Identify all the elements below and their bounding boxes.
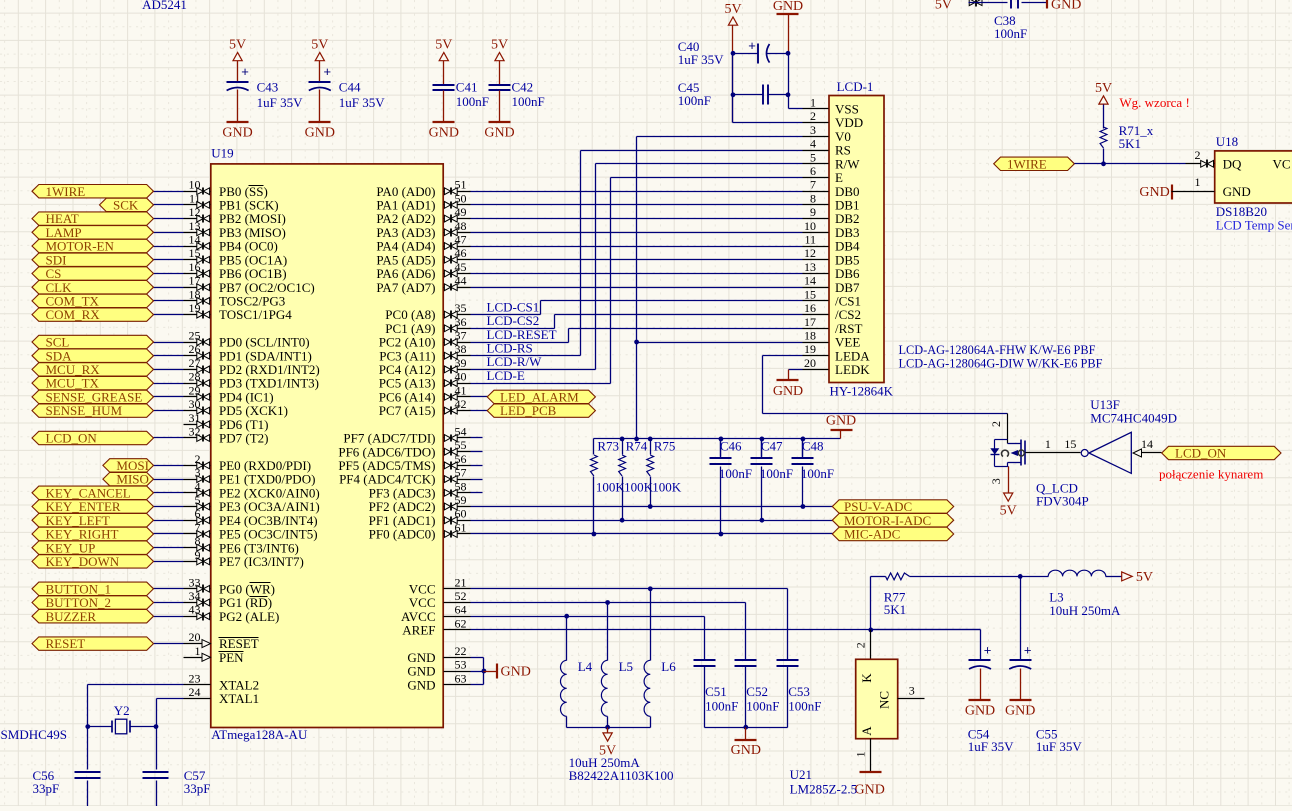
svg-text:100nF: 100nF: [512, 94, 545, 109]
svg-text:1uF 35V: 1uF 35V: [1036, 739, 1082, 754]
svg-text:5K1: 5K1: [884, 602, 906, 617]
svg-text:24: 24: [189, 685, 201, 699]
svg-text:48: 48: [455, 219, 467, 233]
svg-text:3: 3: [195, 466, 201, 480]
svg-text:3: 3: [909, 684, 915, 698]
svg-text:+: +: [241, 64, 249, 79]
svg-text:60: 60: [455, 507, 467, 521]
svg-text:5V: 5V: [1136, 570, 1153, 585]
svg-text:47: 47: [455, 233, 467, 247]
svg-text:2: 2: [989, 421, 1003, 427]
svg-text:DB4: DB4: [835, 239, 860, 254]
svg-text:40: 40: [455, 370, 467, 384]
svg-text:GND: GND: [773, 0, 803, 14]
svg-text:56: 56: [455, 452, 467, 466]
svg-text:C53: C53: [788, 684, 810, 699]
svg-text:5V: 5V: [1000, 504, 1017, 519]
svg-text:39: 39: [455, 356, 467, 370]
svg-text:2: 2: [195, 452, 201, 466]
svg-text:100nF: 100nF: [678, 93, 711, 108]
svg-text:46: 46: [455, 246, 467, 260]
svg-text:12: 12: [804, 246, 816, 260]
svg-text:8: 8: [195, 534, 201, 548]
svg-text:GND: GND: [826, 413, 856, 428]
svg-text:100nF: 100nF: [456, 94, 489, 109]
svg-text:17: 17: [804, 315, 816, 329]
svg-text:44: 44: [455, 274, 467, 288]
svg-text:100nF: 100nF: [994, 26, 1027, 41]
svg-text:1: 1: [854, 751, 868, 757]
svg-text:29: 29: [189, 383, 201, 397]
svg-text:C46: C46: [720, 439, 742, 454]
svg-text:10: 10: [189, 178, 201, 192]
svg-text:5V: 5V: [229, 38, 246, 53]
svg-text:PC5 (A13): PC5 (A13): [379, 376, 436, 391]
svg-text:13: 13: [804, 260, 816, 274]
svg-text:61: 61: [455, 521, 467, 535]
svg-text:GND: GND: [222, 126, 252, 141]
svg-text:15: 15: [189, 246, 201, 260]
svg-text:18: 18: [189, 287, 201, 301]
svg-text:C48: C48: [802, 439, 824, 454]
svg-text:41: 41: [455, 383, 467, 397]
svg-text:10: 10: [804, 219, 816, 233]
svg-text:35: 35: [455, 301, 467, 315]
svg-text:PC7 (A15): PC7 (A15): [379, 403, 436, 418]
svg-text:54: 54: [455, 425, 467, 439]
svg-text:5: 5: [810, 150, 816, 164]
svg-text:1WIRE: 1WIRE: [1007, 156, 1047, 171]
svg-text:100nF: 100nF: [801, 466, 834, 481]
svg-text:GND: GND: [407, 677, 435, 692]
svg-text:HY-12864K: HY-12864K: [830, 384, 894, 399]
svg-text:MOTOR-EN: MOTOR-EN: [46, 239, 115, 254]
svg-text:62: 62: [455, 616, 467, 630]
svg-text:100K: 100K: [652, 480, 682, 495]
svg-text:C43: C43: [257, 80, 279, 95]
svg-text:LM285Z-2.5: LM285Z-2.5: [790, 781, 858, 796]
svg-text:L5: L5: [619, 659, 633, 674]
svg-text:VDD: VDD: [835, 115, 863, 130]
svg-text:PB4 (OC0): PB4 (OC0): [219, 239, 278, 254]
svg-text:DQ: DQ: [1223, 156, 1242, 171]
svg-text:59: 59: [455, 493, 467, 507]
svg-text:52: 52: [455, 589, 467, 603]
svg-text:C51: C51: [705, 684, 727, 699]
svg-text:10uH 250mA: 10uH 250mA: [1049, 603, 1121, 618]
svg-text:36: 36: [455, 315, 467, 329]
svg-text:MIC-ADC: MIC-ADC: [844, 527, 900, 542]
svg-text:LED_PCB: LED_PCB: [500, 403, 557, 418]
svg-text:PA4 (AD4): PA4 (AD4): [376, 239, 435, 254]
svg-text:BUZZER: BUZZER: [46, 609, 97, 624]
svg-text:100nF: 100nF: [788, 699, 821, 714]
svg-text:1: 1: [195, 644, 201, 658]
svg-text:C42: C42: [512, 80, 534, 95]
svg-text:58: 58: [455, 479, 467, 493]
svg-text:32: 32: [189, 425, 201, 439]
svg-text:PE7 (IC3/INT7): PE7 (IC3/INT7): [219, 554, 304, 569]
svg-text:GND: GND: [731, 743, 761, 758]
svg-text:9: 9: [810, 205, 816, 219]
svg-text:PD7 (T2): PD7 (T2): [219, 431, 268, 446]
svg-text:PA7 (AD7): PA7 (AD7): [376, 280, 435, 295]
svg-text:U21: U21: [790, 767, 812, 782]
svg-text:LCD_ON: LCD_ON: [46, 431, 98, 446]
svg-text:KEY_DOWN: KEY_DOWN: [46, 554, 120, 569]
svg-text:64: 64: [455, 603, 467, 617]
svg-text:GND: GND: [429, 126, 459, 141]
svg-text:SENSE_HUM: SENSE_HUM: [46, 403, 123, 418]
svg-text:MC74HC4049D: MC74HC4049D: [1090, 411, 1177, 426]
svg-text:15: 15: [1064, 437, 1076, 451]
svg-text:5K1: 5K1: [1119, 136, 1141, 151]
svg-text:2: 2: [810, 109, 816, 123]
svg-text:33: 33: [189, 575, 201, 589]
svg-text:LCD_ON: LCD_ON: [1175, 446, 1227, 461]
svg-text:+: +: [1024, 643, 1032, 658]
svg-text:B82422A1103K100: B82422A1103K100: [569, 768, 674, 783]
svg-text:17: 17: [189, 274, 201, 288]
svg-text:2: 2: [854, 642, 868, 648]
svg-text:3: 3: [989, 478, 1003, 484]
svg-text:GND: GND: [305, 126, 335, 141]
svg-text:MCU_TX: MCU_TX: [46, 376, 100, 391]
svg-text:LCD Temp Sen: LCD Temp Sen: [1216, 218, 1292, 233]
svg-text:GND: GND: [773, 384, 803, 399]
svg-text:23: 23: [189, 671, 201, 685]
svg-text:45: 45: [455, 260, 467, 274]
svg-text:5V: 5V: [311, 38, 328, 53]
svg-text:4: 4: [810, 137, 816, 151]
svg-text:+: +: [984, 643, 992, 658]
svg-text:20: 20: [189, 630, 201, 644]
svg-text:A: A: [859, 726, 874, 736]
svg-text:COM_RX: COM_RX: [46, 307, 101, 322]
svg-text:LCD-E: LCD-E: [487, 368, 525, 383]
svg-text:XTAL1: XTAL1: [219, 691, 259, 706]
svg-text:PF0 (ADC0): PF0 (ADC0): [369, 527, 436, 542]
svg-text:LCD-AG-128064G-DIW W/KK-E6 PBF: LCD-AG-128064G-DIW W/KK-E6 PBF: [899, 356, 1103, 371]
svg-text:GND: GND: [965, 704, 995, 719]
svg-text:1: 1: [1195, 175, 1201, 189]
svg-text:C52: C52: [746, 684, 768, 699]
svg-text:31: 31: [189, 411, 201, 425]
svg-text:5V: 5V: [1095, 81, 1112, 96]
svg-text:19: 19: [189, 301, 201, 315]
svg-text:5V: 5V: [435, 38, 452, 53]
svg-text:PG2 (ALE): PG2 (ALE): [219, 609, 279, 624]
svg-text:2: 2: [1195, 148, 1201, 162]
svg-text:C44: C44: [339, 80, 361, 95]
svg-text:5V: 5V: [724, 2, 741, 17]
svg-text:GND: GND: [484, 126, 514, 141]
svg-text:MOTOR-I-ADC: MOTOR-I-ADC: [844, 513, 931, 528]
svg-text:7: 7: [195, 521, 201, 535]
svg-text:42: 42: [455, 397, 467, 411]
svg-text:SCK: SCK: [113, 198, 139, 213]
svg-text:GND: GND: [1005, 704, 1035, 719]
svg-text:43: 43: [189, 603, 201, 617]
svg-text:100K: 100K: [624, 480, 654, 495]
svg-text:LCD-1: LCD-1: [837, 79, 874, 94]
svg-text:53: 53: [455, 658, 467, 672]
svg-text:ATmega128A-AU: ATmega128A-AU: [211, 727, 308, 742]
svg-text:C47: C47: [761, 439, 783, 454]
svg-text:16: 16: [804, 301, 816, 315]
svg-text:1WIRE: 1WIRE: [46, 184, 86, 199]
svg-text:6: 6: [810, 164, 816, 178]
svg-text:5: 5: [195, 493, 201, 507]
svg-text:PF1 (ADC1): PF1 (ADC1): [369, 513, 436, 528]
svg-text:100nF: 100nF: [705, 699, 738, 714]
svg-text:połączenie kynarem: połączenie kynarem: [1159, 467, 1263, 482]
svg-text:7: 7: [810, 178, 816, 192]
svg-text:100nF: 100nF: [746, 699, 779, 714]
svg-text:100nF: 100nF: [760, 466, 793, 481]
svg-text:27: 27: [189, 356, 201, 370]
svg-text:Y2: Y2: [114, 703, 130, 718]
svg-text:100nF: 100nF: [719, 466, 752, 481]
svg-text:14: 14: [804, 274, 816, 288]
svg-text:14: 14: [189, 233, 201, 247]
svg-text:L6: L6: [661, 659, 676, 674]
svg-text:VC: VC: [1273, 156, 1291, 171]
svg-text:37: 37: [455, 329, 467, 343]
svg-text:RESET: RESET: [46, 636, 86, 651]
svg-text:1uF 35V: 1uF 35V: [339, 95, 385, 110]
svg-text:30: 30: [189, 397, 201, 411]
svg-text:50: 50: [455, 191, 467, 205]
svg-text:GND: GND: [1051, 0, 1081, 13]
svg-text:GND: GND: [1139, 185, 1169, 200]
svg-text:U18: U18: [1216, 134, 1238, 149]
svg-text:NC: NC: [877, 691, 892, 709]
svg-text:9: 9: [195, 548, 201, 562]
svg-text:K: K: [859, 673, 874, 683]
svg-text:57: 57: [455, 466, 467, 480]
svg-text:FDV304P: FDV304P: [1036, 494, 1089, 509]
svg-text:R73: R73: [597, 439, 619, 454]
svg-text:28: 28: [189, 370, 201, 384]
svg-text:5V: 5V: [491, 38, 508, 53]
svg-text:25: 25: [189, 329, 201, 343]
svg-text:63: 63: [455, 671, 467, 685]
svg-text:GND: GND: [501, 665, 531, 680]
svg-text:5V: 5V: [935, 0, 952, 13]
svg-text:4: 4: [195, 479, 201, 493]
svg-text:GND: GND: [1223, 184, 1251, 199]
svg-text:100K: 100K: [596, 480, 626, 495]
svg-text:1uF 35V: 1uF 35V: [257, 95, 303, 110]
svg-text:GND: GND: [855, 782, 885, 797]
svg-text:AD5241: AD5241: [142, 0, 187, 12]
svg-text:1uF 35V: 1uF 35V: [968, 739, 1014, 754]
svg-text:38: 38: [455, 342, 467, 356]
svg-text:PEN: PEN: [219, 650, 244, 665]
svg-text:+: +: [748, 38, 756, 53]
svg-text:34: 34: [189, 589, 201, 603]
svg-text:1uF 35V: 1uF 35V: [678, 52, 724, 67]
svg-text:-SMDHC49S: -SMDHC49S: [0, 727, 67, 742]
svg-text:Wg. wzorca !: Wg. wzorca !: [1119, 95, 1189, 110]
svg-text:26: 26: [189, 342, 201, 356]
svg-text:TOSC1/1PG4: TOSC1/1PG4: [219, 307, 292, 322]
svg-text:16: 16: [189, 260, 201, 274]
svg-text:15: 15: [804, 287, 816, 301]
svg-text:22: 22: [455, 644, 467, 658]
svg-text:GND: GND: [407, 664, 435, 679]
svg-text:33pF: 33pF: [184, 781, 211, 796]
svg-text:C41: C41: [456, 80, 478, 95]
svg-text:AREF: AREF: [402, 623, 435, 638]
svg-text:R75: R75: [654, 439, 676, 454]
svg-text:19: 19: [804, 342, 816, 356]
svg-text:L4: L4: [578, 659, 593, 674]
svg-text:21: 21: [455, 575, 467, 589]
svg-text:6: 6: [195, 507, 201, 521]
svg-text:PD3 (TXD1/INT3): PD3 (TXD1/INT3): [219, 376, 319, 391]
svg-text:3: 3: [810, 123, 816, 137]
svg-text:18: 18: [804, 329, 816, 343]
svg-text:33pF: 33pF: [33, 781, 60, 796]
svg-text:1: 1: [810, 95, 816, 109]
svg-text:+: +: [324, 64, 332, 79]
svg-text:14: 14: [1141, 437, 1153, 451]
svg-text:11: 11: [804, 233, 816, 247]
svg-text:PE4 (OC3B/INT4): PE4 (OC3B/INT4): [219, 513, 318, 528]
svg-text:51: 51: [455, 178, 467, 192]
svg-text:20: 20: [804, 356, 816, 370]
svg-text:LEDK: LEDK: [835, 362, 870, 377]
svg-text:U19: U19: [211, 145, 233, 160]
svg-text:13: 13: [189, 219, 201, 233]
svg-text:49: 49: [455, 205, 467, 219]
svg-text:8: 8: [810, 191, 816, 205]
svg-text:1: 1: [1045, 437, 1051, 451]
svg-text:55: 55: [455, 438, 467, 452]
svg-text:11: 11: [189, 191, 201, 205]
svg-text:12: 12: [189, 205, 201, 219]
svg-text:KEY_LEFT: KEY_LEFT: [46, 513, 110, 528]
